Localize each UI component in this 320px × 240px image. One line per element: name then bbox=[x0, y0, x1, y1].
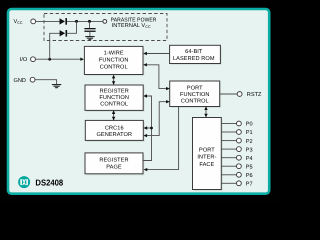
wire node to capacitor C1 bbox=[89, 21, 91, 28]
node junction D1/D2 bbox=[75, 20, 78, 23]
svg-text:CONTROL: CONTROL bbox=[100, 102, 128, 108]
diode D2 (I/O branch) bbox=[60, 30, 68, 37]
wire branch to CRC16 bbox=[147, 127, 152, 129]
svg-text:FUNCTION: FUNCTION bbox=[180, 92, 210, 98]
arrowhead into 1-wire (from ROM) bbox=[143, 52, 147, 55]
wire GND to ground symbol bbox=[35, 80, 56, 85]
svg-text:REGISTER: REGISTER bbox=[99, 158, 128, 164]
block PORT FUNCTION CONTROL bbox=[170, 81, 221, 108]
block REGISTER PAGE bbox=[85, 153, 144, 176]
svg-text:P3: P3 bbox=[246, 147, 253, 153]
arrowhead into 1-wire box bbox=[80, 58, 84, 61]
svg-text:P7: P7 bbox=[246, 182, 253, 188]
block REGISTER FUNCTION CONTROL bbox=[85, 85, 145, 112]
wire D2 cathode to node bbox=[67, 21, 77, 33]
pin Vcc terminal circle bbox=[31, 19, 36, 24]
arrowhead into port function control (upper) bbox=[166, 87, 170, 90]
label PARASITE POWER INTERNAL Vcc bbox=[111, 17, 157, 29]
wire I/O branch up to diode D2 bbox=[50, 33, 60, 59]
svg-text:P5: P5 bbox=[246, 164, 253, 170]
arrow port function control / port interface bbox=[204, 106, 207, 117]
ground (GND pin) bbox=[52, 85, 61, 88]
port P0 wire and pin bbox=[221, 121, 252, 128]
svg-text:INTER-: INTER- bbox=[197, 155, 216, 161]
parasite power dashed box bbox=[44, 14, 167, 41]
wire Vcc to diode D1 bbox=[36, 20, 60, 22]
svg-text:FACE: FACE bbox=[199, 162, 214, 168]
svg-text:PORT: PORT bbox=[199, 148, 215, 154]
svg-text:CONTROL: CONTROL bbox=[181, 98, 209, 104]
svg-text:INTERNAL VCC: INTERNAL VCC bbox=[112, 23, 151, 29]
arrowhead into 1-wire (from PFC) bbox=[143, 63, 147, 66]
arrow register function control / CRC16 bbox=[112, 110, 115, 120]
port P2 wire and pin bbox=[221, 138, 252, 145]
black backdrop bbox=[0, 0, 280, 205]
svg-text:P2: P2 bbox=[246, 139, 253, 145]
wire D1 cathode to parasite node bbox=[67, 20, 103, 22]
arrowhead into register function control bbox=[143, 94, 147, 97]
block 1-WIRE FUNCTION CONTROL bbox=[84, 46, 144, 76]
svg-text:GENERATOR: GENERATOR bbox=[96, 132, 132, 138]
arrowhead into port function control (lower) bbox=[166, 100, 170, 103]
svg-text:PAGE: PAGE bbox=[106, 164, 122, 170]
pin I/O terminal circle bbox=[31, 57, 36, 62]
svg-text:P1: P1 bbox=[246, 130, 253, 136]
svg-text:P6: P6 bbox=[246, 173, 253, 179]
wire 1-wire to port function control bbox=[146, 65, 167, 89]
diode D1 (Vcc branch) bbox=[60, 18, 68, 25]
port P7 wire and pin bbox=[221, 181, 252, 188]
wire port function control to register page bbox=[147, 107, 179, 170]
port P6 wire and pin bbox=[221, 172, 252, 179]
arrow 1-wire / register function control bbox=[112, 75, 115, 85]
svg-text:DS2408: DS2408 bbox=[35, 177, 63, 187]
block 64-BIT LASERED ROM bbox=[170, 45, 222, 65]
arrowhead into register page bbox=[144, 168, 148, 171]
wire I/O to 1-wire function control bbox=[36, 58, 81, 60]
svg-text:LASERED ROM: LASERED ROM bbox=[173, 56, 215, 62]
Maxim logo bbox=[18, 176, 30, 188]
ground (parasite capacitor) bbox=[85, 37, 94, 40]
svg-text:CONTROL: CONTROL bbox=[100, 64, 128, 70]
svg-text:P0: P0 bbox=[246, 122, 253, 128]
capacitor C1 bbox=[84, 28, 95, 32]
pin RSTZ terminal circle bbox=[237, 92, 242, 97]
svg-text:P4: P4 bbox=[246, 156, 253, 162]
port P4 wire and pin bbox=[221, 155, 252, 162]
svg-text:PORT: PORT bbox=[187, 85, 203, 91]
wire CRC16 to port function control bbox=[147, 102, 167, 136]
svg-text:REGISTER: REGISTER bbox=[100, 89, 129, 95]
svg-text:GND: GND bbox=[14, 78, 26, 84]
svg-text:1-WIRE: 1-WIRE bbox=[104, 50, 124, 56]
svg-text:I/O: I/O bbox=[20, 56, 28, 63]
svg-text:FUNCTION: FUNCTION bbox=[99, 57, 129, 63]
node junction I/O parasite branch bbox=[48, 58, 51, 61]
node junction capacitor tap bbox=[88, 20, 91, 23]
card background bbox=[8, 9, 269, 194]
port P1 wire and pin bbox=[221, 130, 252, 137]
port P3 wire and pin bbox=[221, 147, 252, 154]
svg-text:64-BIT: 64-BIT bbox=[185, 49, 203, 55]
pin GND terminal circle bbox=[30, 77, 35, 82]
svg-text:FUNCTION: FUNCTION bbox=[99, 95, 129, 101]
wire PFC to RSTZ bbox=[220, 93, 238, 95]
arrowhead into CRC16 (lower) bbox=[143, 134, 147, 137]
port P5 wire and pin bbox=[221, 164, 252, 171]
node junction register bus bbox=[150, 127, 153, 130]
block PORT INTERFACE bbox=[193, 118, 223, 192]
wire capacitor to ground bbox=[89, 32, 91, 37]
arrowhead into CRC16 (upper) bbox=[144, 126, 148, 129]
svg-text:CRC16: CRC16 bbox=[105, 125, 124, 131]
wire 1-wire to 64-bit ROM bbox=[146, 53, 169, 55]
wire register-bus vertical (RFC / CRC16 / REGISTER PAGE) bbox=[143, 96, 151, 161]
block CRC16 GENERATOR bbox=[85, 120, 144, 142]
svg-text:RSTZ: RSTZ bbox=[247, 92, 262, 98]
terminal circle internal Vcc bbox=[103, 20, 107, 24]
